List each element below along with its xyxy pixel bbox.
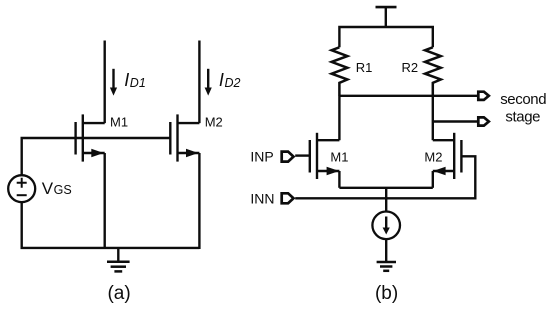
wire common source bus — [339, 187, 432, 189]
current arrow ID1 — [112, 69, 114, 89]
svg-text:stage: stage — [505, 108, 540, 125]
wire source M1 — [103, 153, 105, 249]
svg-text:(b): (b) — [375, 283, 398, 304]
svg-text:INN: INN — [250, 191, 274, 207]
voltage source VGS — [8, 175, 35, 202]
wire drain M1 — [103, 41, 105, 124]
resistor R1 — [332, 47, 348, 96]
current arrow ID2 — [207, 69, 209, 89]
supply rail symbol — [376, 7, 397, 27]
svg-text:D1: D1 — [130, 76, 146, 90]
wire drain M2 — [198, 41, 200, 124]
svg-text:(a): (a) — [107, 283, 130, 304]
wire top bus — [339, 27, 432, 47]
transistor M2 (b) mirrored — [433, 133, 462, 179]
ground (a) — [107, 248, 130, 272]
transistor M1 (b) — [310, 133, 340, 179]
svg-text:R1: R1 — [356, 60, 373, 75]
label ID2 — [219, 70, 241, 90]
svg-text:M2: M2 — [205, 115, 223, 130]
wire source M2 — [198, 153, 200, 249]
wire INP to gate M1 — [295, 154, 310, 156]
label second stage — [500, 91, 546, 125]
svg-text:M1: M1 — [110, 115, 128, 130]
svg-text:M2: M2 — [424, 149, 442, 164]
wire drain branch M1 (b) — [338, 96, 340, 140]
svg-text:I: I — [124, 70, 129, 90]
wire gate bus from VGS to M2 gate — [22, 138, 171, 175]
svg-text:GS: GS — [54, 183, 72, 197]
wire INN to gate M2 — [295, 156, 475, 198]
wire bottom bus from VGS to M2 source — [22, 202, 200, 248]
transistor M1 — [76, 114, 105, 161]
resistor R2 — [425, 47, 441, 96]
svg-text:D2: D2 — [225, 76, 241, 90]
wire source M1 (b) — [338, 171, 340, 188]
current source Itail — [372, 212, 400, 240]
svg-text:INP: INP — [250, 148, 273, 164]
wire node line to output 2 — [433, 120, 479, 122]
svg-text:V: V — [42, 179, 54, 198]
wire node line to output 1 — [339, 95, 478, 97]
transistor M2 — [170, 114, 199, 161]
svg-text:R2: R2 — [402, 60, 419, 75]
label VGS — [42, 179, 72, 198]
wire current source to ground — [385, 239, 387, 261]
svg-text:M1: M1 — [330, 149, 348, 164]
port INP — [282, 152, 294, 162]
wire source M2 (b) — [432, 171, 434, 188]
svg-text:I: I — [219, 70, 224, 90]
wire drain branch M2 (b) with output 2 tap — [432, 96, 434, 140]
ground (b) — [377, 262, 396, 271]
svg-text:second: second — [500, 91, 546, 108]
port INN — [282, 193, 294, 203]
output port 2 (second stage) — [478, 117, 489, 125]
wire tail — [385, 188, 387, 212]
label ID1 — [124, 70, 146, 90]
output port 1 (second stage) — [478, 92, 489, 100]
